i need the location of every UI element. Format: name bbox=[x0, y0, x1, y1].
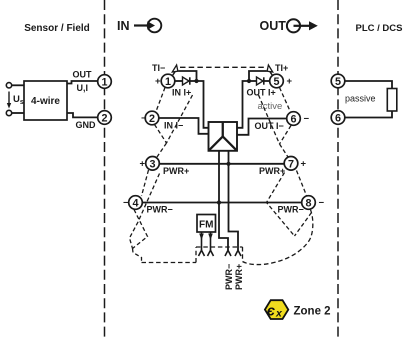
left zone separator dashed line bbox=[104, 0, 106, 338]
dashed link circle8 down-left bbox=[295, 213, 312, 237]
svg-text:4: 4 bbox=[132, 198, 138, 210]
wire terminal 6 into module (OUT I-) bbox=[237, 119, 287, 135]
svg-text:PWR−: PWR− bbox=[147, 205, 173, 215]
IN symbol wire bbox=[134, 24, 148, 26]
svg-text:6: 6 bbox=[335, 113, 341, 125]
svg-text:OUT I−: OUT I− bbox=[255, 121, 284, 131]
junction dot on PWR- rail bbox=[217, 200, 221, 204]
svg-text:U,I: U,I bbox=[77, 83, 89, 93]
svg-text:3: 3 bbox=[149, 159, 155, 171]
PWR- rail bbox=[142, 202, 302, 204]
FM box bbox=[197, 215, 216, 233]
svg-text:7: 7 bbox=[288, 159, 294, 171]
Ex hexagon bbox=[265, 300, 288, 319]
module terminal circle 7 bbox=[284, 157, 298, 171]
svg-text:FM: FM bbox=[199, 220, 213, 231]
TI+ connector to circle 5 bbox=[270, 72, 273, 76]
node A junction dot bbox=[194, 79, 198, 83]
IN symbol circle bbox=[148, 19, 162, 33]
svg-text:−: − bbox=[141, 113, 147, 124]
terminal circle 2 (field side) bbox=[98, 111, 112, 125]
terminal circle 1 (field side) bbox=[98, 75, 112, 89]
module terminal circle 1 bbox=[161, 74, 175, 88]
svg-text:TI−: TI− bbox=[152, 63, 165, 73]
OUT symbol arrowhead bbox=[309, 21, 318, 30]
module terminal circle 3 bbox=[146, 157, 160, 171]
dashed link circle2 to vertex L1 bbox=[155, 125, 167, 144]
module terminal circle 2 bbox=[145, 111, 159, 125]
PWR+ rail bbox=[159, 163, 285, 165]
dashed arc to circle 8 bbox=[243, 210, 313, 265]
dashed link circle7 to circle8 bbox=[297, 171, 307, 196]
dashed link vertex L1 to circle3 bbox=[157, 143, 167, 157]
isolator symbol bbox=[222, 122, 224, 137]
dashed link circle6 to vertex R1 bbox=[280, 126, 292, 145]
module terminal circle 6 bbox=[287, 112, 301, 126]
svg-text:IN I+: IN I+ bbox=[172, 88, 191, 98]
dashed bottom bus horizontal middle bbox=[196, 246, 243, 248]
dashed bottom bus left elbow bbox=[133, 249, 142, 263]
wire PLC loop bottom bbox=[345, 111, 392, 118]
svg-text:4-wire: 4-wire bbox=[31, 96, 60, 107]
wire PLC loop top bbox=[345, 81, 392, 89]
wire terminal 2 into module (IN I-) bbox=[159, 118, 209, 134]
Us arrow bbox=[8, 92, 10, 105]
dashed link vertex R1 to circle7 bbox=[280, 144, 289, 157]
terminal circle 6 (PLC side) bbox=[331, 111, 345, 125]
dashed link circle1 to circle2 bbox=[156, 88, 165, 112]
svg-text:PWR+: PWR+ bbox=[163, 166, 189, 176]
module terminal circle 4 bbox=[129, 196, 143, 210]
svg-text:Sensor / Field: Sensor / Field bbox=[24, 23, 90, 34]
dashed link node A to vertex L1 bbox=[167, 95, 193, 143]
module right power pin bbox=[229, 151, 239, 250]
svg-text:PWR+: PWR+ bbox=[259, 166, 285, 176]
isolator box bbox=[209, 122, 238, 151]
FM pin left bbox=[201, 232, 203, 250]
resistor (passive load) bbox=[387, 89, 397, 112]
wire node B to diode bbox=[249, 80, 257, 82]
svg-text:6: 6 bbox=[290, 114, 296, 126]
dashed link circle7 to PWR- rail bbox=[267, 173, 295, 237]
svg-text:+: + bbox=[155, 76, 161, 87]
svg-text:є: є bbox=[267, 303, 275, 319]
wire node B into module (OUT I+) bbox=[237, 81, 249, 128]
wire node A into module (IN I+) bbox=[197, 81, 209, 128]
wire 4-wire box to terminal 1 bbox=[67, 81, 98, 84]
svg-text:+: + bbox=[140, 159, 146, 170]
PWR- rail connector chevron bbox=[225, 250, 231, 256]
TI+ triangle bbox=[267, 65, 273, 72]
svg-text:1: 1 bbox=[165, 76, 171, 88]
dashed link circle5 to circle6 bbox=[280, 88, 291, 113]
svg-text:OUT I+: OUT I+ bbox=[247, 88, 276, 98]
TI- triangle bbox=[172, 65, 178, 72]
dashed link OUT I+ to vertex R1 bbox=[259, 95, 280, 144]
svg-text:OUT: OUT bbox=[260, 19, 287, 33]
wire circle 1 to diode bbox=[175, 80, 183, 82]
module terminal circle 8 bbox=[302, 196, 316, 210]
svg-text:1: 1 bbox=[101, 77, 107, 89]
svg-text:OUT: OUT bbox=[73, 70, 93, 80]
svg-text:8: 8 bbox=[305, 198, 311, 210]
svg-text:TI+: TI+ bbox=[275, 63, 288, 73]
dashed link circle4 to vertex L2 bbox=[133, 210, 148, 249]
OUT symbol wire bbox=[294, 25, 310, 27]
svg-text:5: 5 bbox=[335, 76, 341, 88]
svg-text:+: + bbox=[287, 76, 293, 87]
dashed link PWR+ label to lower-left bbox=[130, 174, 160, 249]
svg-text:+: + bbox=[301, 159, 307, 170]
svg-text:−: − bbox=[304, 114, 310, 125]
wire TI+ to node B bbox=[249, 71, 267, 81]
dashed bottom bus drop bbox=[242, 247, 244, 262]
dashed link circle3 to circle4 bbox=[142, 170, 149, 196]
svg-text:PWR−: PWR− bbox=[224, 264, 234, 290]
wire TI- to node A bbox=[179, 71, 197, 81]
svg-text:−: − bbox=[123, 198, 129, 209]
svg-text:−: − bbox=[319, 198, 325, 209]
svg-text:PWR−: PWR− bbox=[278, 205, 304, 215]
wire diode to circle 5 bbox=[264, 80, 270, 82]
module left power pin bbox=[219, 151, 228, 250]
svg-text:passive: passive bbox=[345, 94, 376, 104]
wire diode to node A bbox=[190, 80, 197, 82]
sensor terminal bottom bbox=[6, 110, 11, 115]
OUT symbol circle bbox=[287, 19, 300, 32]
right zone separator dashed line bbox=[337, 0, 339, 338]
4-wire box bbox=[24, 81, 67, 120]
diode D1 (input) bbox=[183, 77, 190, 85]
svg-text:GND: GND bbox=[76, 120, 97, 130]
svg-text:5: 5 bbox=[273, 76, 279, 88]
svg-text:PLC / DCS: PLC / DCS bbox=[356, 23, 403, 34]
FM pin right chevron bbox=[208, 250, 214, 256]
IN symbol arrowhead bbox=[147, 21, 155, 30]
svg-text:2: 2 bbox=[101, 113, 107, 125]
svg-text:Zone 2: Zone 2 bbox=[294, 306, 331, 318]
wire sensor bottom to 4-wire box bbox=[12, 112, 24, 114]
FM pin left chevron bbox=[199, 250, 205, 256]
wire sensor top to 4-wire box bbox=[12, 84, 24, 86]
svg-text:2: 2 bbox=[149, 113, 155, 125]
PWR+ rail connector chevron bbox=[235, 250, 241, 256]
dashed bottom bus horizontal left bbox=[142, 262, 197, 264]
svg-text:IN: IN bbox=[117, 19, 130, 33]
terminal circle 5 (PLC side) bbox=[331, 74, 345, 88]
dashed bottom bus rise bbox=[195, 247, 197, 263]
svg-text:PWR+: PWR+ bbox=[234, 264, 244, 290]
svg-text:IN I−: IN I− bbox=[164, 121, 183, 131]
module terminal circle 5 bbox=[270, 74, 284, 88]
diode D2 (output) bbox=[257, 77, 264, 85]
FM pin right bbox=[210, 232, 212, 250]
TI- connector to circle 1 bbox=[172, 72, 175, 76]
TI dashed bus bbox=[180, 66, 266, 68]
svg-text:x: x bbox=[275, 308, 283, 320]
sensor terminal top bbox=[6, 83, 11, 88]
junction dot on PWR+ rail bbox=[226, 162, 230, 166]
wire 4-wire box to terminal 2 bbox=[67, 113, 98, 117]
node B junction dot bbox=[247, 79, 251, 83]
